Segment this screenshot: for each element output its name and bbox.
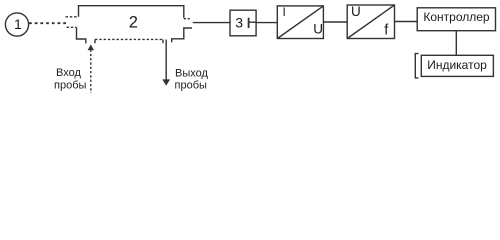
svg-text:пробы: пробы [54, 80, 86, 92]
svg-text:I: I [283, 5, 286, 19]
svg-text:1: 1 [14, 17, 22, 33]
svg-text:U: U [351, 4, 361, 19]
svg-text:2: 2 [129, 13, 138, 31]
svg-text:3: 3 [235, 15, 243, 31]
svg-text:Вход: Вход [56, 67, 81, 79]
svg-text:f: f [384, 22, 389, 38]
svg-text:Контроллер: Контроллер [423, 10, 490, 24]
svg-text:U: U [313, 22, 323, 37]
svg-text:Индикатор: Индикатор [427, 58, 487, 72]
svg-text:пробы: пробы [175, 79, 207, 91]
svg-text:Выход: Выход [175, 67, 208, 79]
